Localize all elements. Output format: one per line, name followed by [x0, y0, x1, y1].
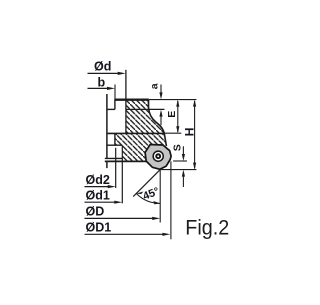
cutting plane reference line — [160, 169, 197, 171]
svg-text:ØD: ØD — [86, 205, 105, 219]
svg-text:E: E — [166, 111, 178, 118]
dim E line — [177, 101, 179, 132]
drive key top line — [105, 157, 123, 159]
mid shoulder line with a-dim tick — [126, 108, 165, 110]
top face (thick) — [114, 99, 148, 101]
dim ØD line — [85, 217, 154, 219]
dim S lower leader — [182, 176, 184, 187]
angle 45deg slanted leg — [133, 170, 160, 197]
dim S upper leader — [182, 146, 184, 155]
dim Ød1 line — [85, 201, 116, 203]
body outline: left outer edge — [106, 94, 108, 158]
svg-text:ØD1: ØD1 — [86, 220, 112, 234]
dim a upper leader — [160, 85, 162, 95]
dim a upper arrow (points down to top face) — [159, 92, 162, 99]
body upper hatched block (hub section) — [126, 100, 164, 134]
dim a lower arrow (points up to shoulder) — [159, 110, 162, 117]
dim b arrow — [107, 87, 115, 90]
svg-text:Ød: Ød — [94, 60, 111, 74]
angle 45deg arc — [136, 194, 160, 204]
angle arc arrow at vertical line — [153, 201, 160, 204]
insert screw head — [155, 153, 161, 159]
angle 45deg vertical leg / ØD extension — [159, 170, 161, 223]
right profile edge with S-curve — [149, 100, 165, 134]
top face extension line to H dim — [149, 99, 197, 101]
svg-text:a: a — [148, 83, 160, 89]
dim S lower arrow (points up) — [182, 170, 185, 177]
seam extension to E dim — [165, 132, 182, 134]
insert screw center — [157, 155, 159, 157]
left lower stub edge — [106, 161, 108, 168]
dim Ød2 line — [85, 186, 110, 188]
dim ØD1 line — [85, 233, 164, 235]
pocket step horizontal — [107, 144, 122, 146]
dim H top arrow — [193, 100, 196, 107]
dim H line — [194, 101, 196, 169]
dim S upper arrow (points down) — [182, 154, 185, 161]
bottom face line — [105, 160, 147, 162]
body lower hatched block (flange section) — [115, 133, 168, 164]
dim ØD arrow — [152, 217, 160, 220]
dim Ød1 arrow — [114, 201, 122, 204]
svg-text:S: S — [171, 144, 183, 151]
body edge right of seam down to insert — [164, 133, 166, 146]
insert screw washer outer ring — [153, 151, 163, 161]
dim Ød arrow — [118, 72, 126, 75]
dim S tick line — [173, 160, 187, 162]
body seam line y=133.4 — [107, 132, 165, 134]
dim b line — [88, 87, 109, 89]
svg-text:Fig.2: Fig.2 — [185, 217, 229, 240]
angle arc arrow at 45 line — [136, 192, 143, 195]
dim E top arrow — [176, 100, 179, 107]
counterbore shoulder line — [107, 108, 115, 110]
svg-text:b: b — [98, 76, 106, 90]
dim ØD1 arrow — [162, 233, 170, 236]
dim Ød line — [88, 72, 120, 74]
dim ØD1 extension line — [170, 161, 172, 239]
bore edge / Ød extension line — [125, 70, 127, 134]
svg-text:Ød1: Ød1 — [86, 189, 110, 203]
svg-text:Ød2: Ød2 — [86, 173, 110, 187]
dim E bottom arrow — [176, 126, 179, 133]
dim Ød2 arrow — [108, 185, 116, 188]
pocket right edge + Ød1 extension — [121, 145, 123, 203]
insert (octagonal, gray) — [145, 145, 171, 170]
Ød2 extension line — [115, 148, 117, 188]
lower-left pocket step vertical — [114, 133, 116, 145]
keyway left edge — [114, 100, 116, 110]
dim b extension line — [114, 85, 116, 101]
dim H bottom arrow — [193, 163, 196, 170]
dim a lower leader — [160, 115, 162, 125]
